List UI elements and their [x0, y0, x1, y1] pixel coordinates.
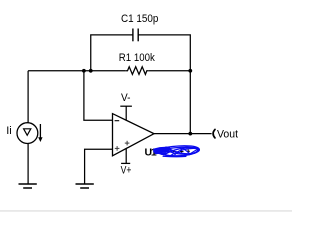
current source Ii circle — [17, 123, 38, 144]
current direction arrow line — [39, 124, 41, 138]
op-amp minus sign — [115, 120, 120, 122]
V- supply pin — [120, 106, 132, 120]
op-amp plus sign at input — [115, 146, 120, 151]
current source inner arrow triangle — [24, 129, 31, 136]
ground G1 under current source — [19, 184, 37, 188]
svg-text:R1 100k: R1 100k — [119, 52, 155, 64]
op-amp plus sign upper (output polarity) — [125, 141, 130, 146]
hidden part-number marks under scribble — [173, 149, 190, 153]
svg-text:Ii: Ii — [6, 125, 12, 137]
output terminal paren — [213, 129, 215, 138]
V+ supply pin — [121, 149, 130, 164]
wire resistor right to node — [148, 70, 190, 72]
wire from right plate to top-right corner then down — [138, 35, 190, 134]
wire below current source to ground — [27, 143, 29, 183]
wire op-amp output — [154, 133, 212, 135]
blue scribble annotation over part number — [155, 146, 200, 157]
wire non-inverting input branch — [85, 149, 112, 183]
node dot C (R1 right / feedback junction) — [188, 69, 192, 73]
wire main horizontal node at y=70.8 — [28, 70, 126, 72]
wire top from C1 left corner to left plate — [91, 35, 133, 71]
node dot A (inverting branch junction) — [82, 69, 86, 73]
resistor R1 zigzag — [126, 67, 148, 75]
capacitor C1 plates — [133, 29, 138, 42]
current direction arrowhead — [38, 137, 42, 142]
bottom separator line — [0, 210, 292, 211]
node dot B (cap branch junction) — [89, 69, 93, 73]
svg-text:V+: V+ — [121, 164, 132, 176]
ground G2 under op-amp plus input — [76, 184, 94, 188]
blue scribble dense left mass — [154, 148, 170, 153]
svg-text:V-: V- — [121, 92, 131, 104]
svg-text:Vout: Vout — [217, 129, 238, 141]
wire inverting input branch — [84, 71, 112, 120]
node dot D (output junction) — [188, 132, 192, 136]
wire left drop to current source — [27, 71, 29, 123]
op-amp U1 triangle — [113, 114, 155, 156]
svg-text:C1 150p: C1 150p — [121, 13, 158, 25]
